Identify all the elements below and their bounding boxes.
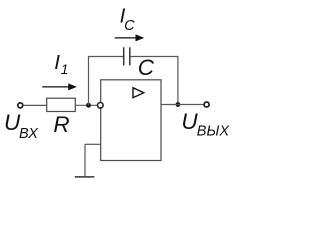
capacitor C (124, 47, 130, 65)
op-amp inverting input inversion circle (98, 103, 104, 109)
wire feedback left vertical (88, 57, 90, 106)
wire feedback top left horizontal (88, 56, 124, 58)
current arrow Ic (115, 34, 145, 41)
wire non-inverting input horizontal (85, 143, 101, 145)
svg-text:C: C (138, 55, 155, 80)
svg-text:C: C (124, 18, 135, 34)
wire op-amp output to terminal (161, 104, 204, 106)
svg-text:ВХ: ВХ (19, 126, 39, 142)
svg-text:1: 1 (61, 61, 69, 77)
node B junction dot (output node) (176, 102, 181, 107)
current arrow I1 (42, 83, 77, 90)
output terminal Uвых (204, 102, 209, 107)
wire feedback right vertical (177, 56, 179, 105)
wire feedback top right horizontal (130, 56, 178, 58)
wire non-inverting input vertical to ground (84, 144, 86, 177)
svg-text:ВЫХ: ВЫХ (197, 124, 231, 140)
ground (75, 176, 95, 178)
wire resistor to op-amp inverting input (75, 104, 97, 106)
op-amp U1 body (rectangle, GOST style) (101, 80, 161, 161)
label I1 (54, 51, 68, 77)
input terminal Uвх (18, 103, 23, 108)
label Uвх (input voltage) (4, 110, 39, 142)
svg-text:I: I (54, 51, 60, 74)
svg-text:R: R (53, 112, 69, 137)
wire input terminal to resistor (24, 104, 47, 106)
op-amp U1 amplifier triangle symbol (133, 88, 144, 98)
label Ic (120, 5, 136, 34)
label Uвых (output voltage) (181, 109, 230, 139)
resistor R (47, 98, 76, 111)
node A junction dot (summing node) (86, 103, 91, 108)
